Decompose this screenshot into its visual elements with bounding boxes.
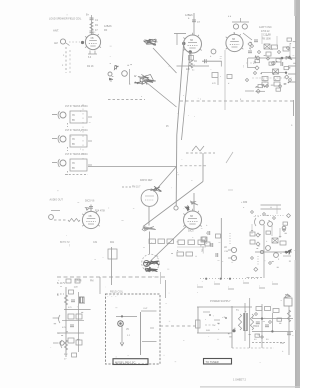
svg-text:1ST IF TRANS 455KC: 1ST IF TRANS 455KC [65, 105, 88, 108]
svg-text:470K 22: 470K 22 [261, 31, 270, 33]
svg-text:1 SHEET 2: 1 SHEET 2 [233, 378, 246, 382]
svg-text:ANT.: ANT. [53, 29, 59, 33]
svg-text:LD: LD [224, 247, 227, 249]
svg-text:LOUD SPEAKER FIELD COIL: LOUD SPEAKER FIELD COIL [49, 18, 82, 21]
svg-text:1ST IF TRANS 455KC: 1ST IF TRANS 455KC [65, 153, 88, 156]
svg-text:C31: C31 [93, 242, 98, 244]
svg-text:_ .. _ .. _ ..: _ .. _ .. _ .. [106, 294, 119, 297]
svg-text:R9 100K: R9 100K [262, 39, 271, 41]
svg-text:R14 470K: R14 470K [95, 211, 106, 213]
svg-text:PM: PM [90, 281, 94, 283]
svg-text:50C5 V6: 50C5 V6 [85, 200, 95, 203]
svg-text:47K: 47K [212, 83, 216, 85]
svg-text:6B: 6B [91, 37, 94, 40]
svg-text:POWER SUPPLY: POWER SUPPLY [210, 299, 231, 303]
svg-text:6B: 6B [190, 215, 193, 218]
svg-text:RATIO DET: RATIO DET [140, 179, 153, 182]
svg-text:68 TO 72: 68 TO 72 [60, 242, 70, 244]
svg-text:6B: 6B [89, 215, 92, 218]
svg-text:B- 117V: B- 117V [57, 283, 66, 285]
svg-text:1ST IF TRANS 455KC: 1ST IF TRANS 455KC [65, 129, 88, 132]
svg-text:50C5: 50C5 [188, 231, 194, 233]
svg-text:SPKR: SPKR [75, 280, 82, 283]
svg-text:RF: RF [104, 29, 108, 32]
svg-text:R21: R21 [110, 242, 115, 244]
svg-text:AUDIO OUT: AUDIO OUT [50, 199, 64, 202]
svg-text:VC: VC [126, 329, 130, 331]
svg-text:35W4: 35W4 [253, 326, 260, 328]
svg-text:12BE6: 12BE6 [185, 14, 193, 17]
svg-text:OUT: OUT [143, 308, 148, 310]
svg-text:12BA6: 12BA6 [104, 25, 112, 28]
svg-text:6B: 6B [232, 38, 235, 41]
svg-text:22K: 22K [186, 69, 191, 71]
svg-text:AM: AM [54, 42, 58, 45]
svg-text:+ R30: + R30 [241, 202, 248, 204]
svg-text:6B: 6B [190, 39, 193, 42]
svg-text:12AT7 OSC: 12AT7 OSC [259, 26, 272, 29]
svg-text:TO TUNER: TO TUNER [206, 360, 219, 364]
svg-text:MODEL 5R10 SC: MODEL 5R10 SC [115, 361, 135, 365]
svg-text:FM 10.7: FM 10.7 [132, 187, 141, 189]
svg-text:R2 1K: R2 1K [87, 65, 94, 68]
svg-text:FIELD COIL: FIELD COIL [110, 291, 124, 294]
